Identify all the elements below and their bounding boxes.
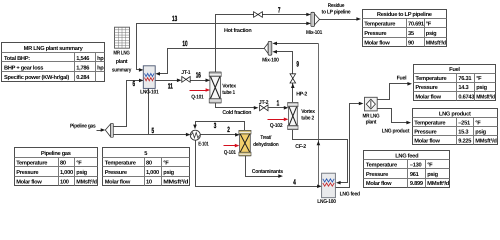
svg-text:psig: psig — [475, 129, 486, 136]
label Treat/dehydration — [253, 135, 279, 148]
label 9 — [296, 59, 299, 68]
svg-text:Temperature: Temperature — [105, 161, 136, 167]
wire stream 4 (E-101 bottom to LNG-100 left) — [196, 141, 322, 189]
label Vortex tube 2 — [301, 109, 316, 121]
tee splitter on pipeline gas — [105, 123, 113, 137]
label MR LNG plant summary (icon caption) — [112, 51, 132, 74]
svg-text:JT-2: JT-2 — [259, 100, 269, 106]
label JT-1 — [181, 70, 190, 76]
svg-text:LNG feed: LNG feed — [395, 152, 419, 159]
svg-text:Pressure: Pressure — [16, 170, 38, 176]
wire stream 5 (tee to E-101) with junction from LNG-101 bottom — [114, 89, 191, 137]
svg-text:plant: plant — [116, 58, 128, 65]
svg-text:961: 961 — [410, 172, 419, 178]
wire residue to LP pipeline (Mix-101 outlet) — [320, 17, 362, 21]
svg-text:hp: hp — [97, 64, 104, 71]
svg-text:5: 5 — [144, 151, 147, 157]
label E-101 — [198, 141, 209, 147]
svg-text:35: 35 — [408, 31, 414, 37]
svg-text:80: 80 — [60, 161, 66, 167]
svg-text:MR LNG: MR LNG — [362, 113, 379, 119]
svg-text:MMsft³/d: MMsft³/d — [426, 39, 447, 46]
svg-text:3: 3 — [214, 121, 217, 130]
table stream 5 — [103, 148, 190, 186]
label 1 — [277, 98, 280, 107]
label 16 — [196, 71, 201, 80]
vortex tube 1 — [209, 72, 221, 103]
svg-text:Q-101: Q-101 — [224, 150, 236, 156]
label Cold fraction — [222, 110, 252, 116]
svg-text:MR LNG: MR LNG — [113, 51, 129, 57]
svg-text:Temperature: Temperature — [16, 161, 47, 167]
svg-text:Vortex: Vortex — [222, 84, 237, 90]
svg-text:10: 10 — [182, 39, 187, 48]
svg-text:tube 2: tube 2 — [301, 115, 314, 121]
svg-text:to LP pipeline: to LP pipeline — [322, 9, 351, 15]
svg-text:–130: –130 — [410, 163, 422, 169]
svg-text:90: 90 — [408, 40, 414, 46]
sub-flowsheet icon MR LNG plant — [365, 97, 378, 111]
svg-text:1,000: 1,000 — [60, 170, 73, 176]
svg-text:dehydration: dehydration — [253, 142, 279, 148]
svg-text:1,786: 1,786 — [76, 65, 89, 71]
mixer Mix-100 — [264, 41, 272, 55]
svg-text:Temperature: Temperature — [414, 121, 445, 127]
svg-text:Total BHP:: Total BHP: — [4, 55, 30, 62]
label Pipeline gas — [70, 124, 96, 130]
svg-text:100: 100 — [60, 180, 69, 186]
svg-text:Molar flow: Molar flow — [366, 180, 392, 187]
svg-text:10: 10 — [146, 180, 152, 186]
label Contaminants — [252, 169, 283, 175]
label LNG feed — [340, 191, 360, 197]
svg-text:Pressure: Pressure — [364, 31, 386, 37]
label Mix-101 — [306, 30, 322, 36]
label LNG product — [382, 128, 410, 134]
label 13 — [172, 14, 177, 23]
label MR LNG plant (icon) — [362, 113, 379, 125]
svg-text:0.6743: 0.6743 — [458, 94, 474, 100]
svg-text:Pressure: Pressure — [414, 130, 436, 136]
svg-text:70.691: 70.691 — [408, 22, 424, 28]
svg-text:Residue: Residue — [328, 3, 345, 9]
svg-text:Fuel: Fuel — [397, 76, 407, 82]
svg-text:Q-101: Q-101 — [191, 94, 203, 100]
svg-text:tube 1: tube 1 — [222, 90, 235, 96]
label Residue / to LP pipeline — [322, 3, 351, 15]
svg-text:Q-102: Q-102 — [270, 123, 283, 129]
wire stream 11 / 16 (LNG-101 to JT-1 to vortex tube 1) — [156, 79, 211, 83]
valve JT-2 — [260, 105, 268, 111]
valve JT-1 — [182, 77, 190, 83]
Q-102 heat to vortex tube 2 — [268, 118, 289, 129]
svg-text:psig: psig — [476, 84, 487, 91]
svg-text:E-101: E-101 — [198, 141, 209, 147]
svg-text:Fuel: Fuel — [449, 66, 460, 73]
table LNG product — [413, 109, 498, 145]
svg-text:1,546: 1,546 — [76, 56, 89, 62]
wire fuel (MR LNG plant to fuel table) — [378, 82, 413, 100]
wire stream 3 (treat top back to E-101 top) — [193, 122, 244, 131]
svg-text:Molar flow: Molar flow — [414, 138, 440, 145]
svg-text:°F: °F — [427, 163, 433, 169]
svg-text:Mix-101: Mix-101 — [306, 30, 322, 36]
svg-text:15.3: 15.3 — [458, 130, 468, 136]
table MR LNG plant summary — [2, 43, 105, 82]
label 3 — [214, 121, 217, 130]
svg-text:°F: °F — [476, 76, 482, 82]
svg-text:°F: °F — [76, 161, 82, 167]
label LNG-101 — [140, 90, 159, 96]
exchanger LNG-100 — [322, 173, 336, 198]
label Mix-100 — [262, 57, 279, 63]
svg-text:BHP + gear loss: BHP + gear loss — [4, 64, 43, 71]
wire Mix-100 top inlet from riser x=318 — [272, 42, 318, 46]
label LNG-100 — [317, 199, 336, 205]
label HP-2 — [296, 92, 307, 98]
svg-text:6: 6 — [133, 79, 136, 88]
svg-text:MMsft³/d: MMsft³/d — [163, 179, 189, 186]
svg-text:Temperature: Temperature — [415, 76, 446, 82]
label Fuel — [397, 76, 407, 82]
wire stream 9 (vortex tube 2 top through HP-2 to Mix-100 bottom inlet) — [272, 50, 294, 103]
svg-text:76.31: 76.31 — [458, 76, 471, 82]
svg-text:2: 2 — [227, 125, 230, 134]
svg-text:Hot fraction: Hot fraction — [224, 28, 252, 34]
svg-text:0.284: 0.284 — [76, 75, 90, 81]
valve HP-2 — [290, 74, 296, 83]
label 5 — [152, 126, 155, 135]
label 6 — [133, 79, 136, 88]
wire pipeline gas inlet arrow — [97, 128, 106, 132]
svg-text:psig: psig — [427, 171, 438, 178]
svg-text:Molar flow: Molar flow — [415, 93, 441, 100]
svg-text:Pressure: Pressure — [105, 170, 127, 176]
svg-text:hp: hp — [97, 55, 104, 62]
wire stream 13 (riser tee to LNG-101) and residue branch to Mix-101 lower inlet — [137, 22, 311, 72]
svg-text:9: 9 — [296, 59, 299, 68]
svg-text:7: 7 — [278, 5, 281, 14]
svg-text:psig: psig — [76, 169, 87, 176]
label JT-2 — [259, 100, 269, 106]
svg-text:Pipeline gas: Pipeline gas — [70, 124, 96, 130]
svg-text:1,000: 1,000 — [146, 170, 159, 176]
valve on stream 7 — [254, 12, 263, 18]
vortex tube 2 — [288, 102, 298, 129]
svg-text:LNG feed: LNG feed — [340, 191, 360, 197]
label Vortex tube 1 — [222, 84, 237, 96]
svg-text:9.225: 9.225 — [458, 139, 471, 145]
svg-text:CF-2: CF-2 — [295, 144, 306, 150]
Q-101 heat to vortex tube 1 — [190, 88, 211, 100]
wire cold fraction (vortex tube 1 bottom through JT-2, stream 1, to vortex tube 2) — [216, 103, 289, 110]
svg-text:JT-1: JT-1 — [181, 70, 190, 76]
svg-text:4: 4 — [293, 178, 296, 187]
svg-text:Molar flow: Molar flow — [105, 179, 131, 186]
label CF-2 — [295, 144, 306, 150]
svg-text:80: 80 — [146, 161, 152, 167]
svg-text:MMsft³/d: MMsft³/d — [475, 138, 497, 145]
svg-text:LNG-101: LNG-101 — [140, 90, 159, 96]
wire stream 10 (Mix-100 outlet to LNG-101 right side) — [155, 49, 264, 76]
wire stream 7 (hot fraction to Mix-101 top inlet) — [216, 13, 311, 73]
svg-text:Molar flow: Molar flow — [16, 179, 42, 186]
svg-text:°F: °F — [475, 121, 481, 127]
Q-101 heat to treat/dehydration — [224, 144, 240, 156]
label Hot fraction — [224, 28, 252, 34]
svg-text:Contaminants: Contaminants — [252, 169, 283, 175]
svg-text:LNG-100: LNG-100 — [317, 199, 336, 205]
label 11 — [168, 81, 174, 90]
svg-text:MMsft³/d: MMsft³/d — [427, 180, 450, 187]
treat/dehydration vessel — [239, 130, 251, 155]
svg-text:Cold fraction: Cold fraction — [222, 110, 252, 116]
wire stream 2 (E-101 to treat/dehydration) — [201, 133, 240, 137]
wire LNG product (MR LNG plant to LNG product table) — [378, 109, 412, 125]
table Fuel — [414, 65, 496, 101]
svg-text:9.899: 9.899 — [410, 181, 423, 187]
label 4 — [293, 178, 296, 187]
label 7 — [278, 5, 281, 14]
svg-text:–251: –251 — [458, 121, 470, 127]
wire CF-2 (vortex tube 2 bottom to LNG-100 right side) — [293, 130, 348, 185]
workbook grid icon MR LNG plant summary — [115, 27, 130, 48]
svg-text:13: 13 — [172, 14, 177, 23]
svg-text:summary: summary — [112, 68, 132, 74]
wire contaminants outlet — [246, 156, 283, 178]
svg-text:Pressure: Pressure — [366, 172, 388, 178]
svg-text:Molar flow: Molar flow — [364, 39, 390, 46]
wire stream 6 (tee top outlet to LNG-101 left) — [114, 79, 144, 127]
label 10 — [182, 39, 187, 48]
mixer Mix-101 — [311, 12, 320, 26]
svg-text:11: 11 — [168, 81, 174, 90]
table Residue to LP pipeline — [363, 10, 447, 47]
svg-text:MR LNG plant summary: MR LNG plant summary — [24, 45, 84, 52]
svg-text:Pressure: Pressure — [415, 85, 437, 91]
svg-text:psig: psig — [163, 169, 174, 176]
svg-text:14.3: 14.3 — [458, 85, 468, 91]
svg-text:plant: plant — [366, 120, 377, 126]
svg-text:LNG product: LNG product — [382, 128, 410, 134]
svg-text:LNG product: LNG product — [439, 111, 471, 118]
svg-text:Residue to LP pipeline: Residue to LP pipeline — [377, 11, 432, 18]
svg-text:Treat/: Treat/ — [260, 135, 271, 141]
wire vertical riser from stream 4 junction up to Mix-100 inlet line — [317, 44, 321, 187]
svg-text:Temperature: Temperature — [366, 163, 397, 169]
svg-text:psig: psig — [426, 30, 437, 37]
svg-text:HP-2: HP-2 — [296, 92, 307, 98]
svg-text:MMsft³/d: MMsft³/d — [76, 179, 97, 186]
svg-text:Temperature: Temperature — [364, 22, 395, 28]
wire LNG feed (LNG-100 to MR LNG plant) — [336, 102, 364, 188]
svg-text:°F: °F — [163, 161, 169, 167]
svg-text:Specific power (KW-hr/gal): Specific power (KW-hr/gal) — [4, 74, 69, 81]
svg-text:°F: °F — [426, 22, 432, 28]
svg-text:Mix-100: Mix-100 — [262, 57, 279, 63]
svg-text:Vortex: Vortex — [301, 109, 316, 115]
exchanger LNG-101 — [143, 66, 155, 89]
label 2 — [227, 125, 230, 134]
table Pipeline gas — [15, 148, 98, 186]
svg-text:16: 16 — [196, 71, 201, 80]
svg-text:Pipeline gas: Pipeline gas — [41, 150, 71, 157]
table LNG feed — [364, 151, 450, 188]
exchanger E-101 — [190, 130, 200, 140]
svg-text:MMsft³/d: MMsft³/d — [476, 93, 495, 100]
